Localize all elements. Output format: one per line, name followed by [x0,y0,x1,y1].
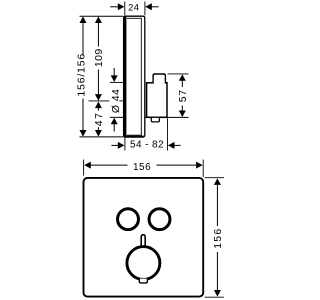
dimension 156 top extension lines [83,160,85,176]
dimension 57 up arrow [179,74,186,81]
dimension 156 right up arrow [214,178,221,185]
svg-text:54 - 82: 54 - 82 [130,140,164,151]
extension line bottom-left (plate bottom) [80,136,124,138]
right select button [149,209,170,230]
dimension 156/156 down arrow [80,130,87,137]
concealed valve body (iBox) [147,83,167,118]
dimension 156/156 up arrow [80,16,87,23]
svg-text:156: 156 [212,228,224,249]
extension line 57 top [168,73,189,75]
dimension 47 down arrow [95,130,102,137]
svg-text:57: 57 [177,89,189,102]
extension line valve center [89,100,110,102]
dimension 57 line [181,80,183,88]
dimension 156 right line [216,185,218,227]
dimension 156 top left arrow [84,162,91,169]
wall plate inner contour line [127,18,142,135]
dimension 156 top right arrow [196,162,203,169]
dimension 109 down arrow [95,94,102,101]
dimension 156 right down arrow [214,290,221,297]
dimension 24 right arrow [151,6,158,8]
left select button [118,209,139,230]
dimension 54-82 left arrow [111,144,118,146]
wall plate front face (thick line) [123,16,126,136]
dimension Ø44 top arrow [113,68,115,76]
dimension 54-82 extension lines [124,136,126,151]
dimension Ø44 bottom arrow [113,124,115,132]
dimension 57 down arrow [179,111,186,118]
dimension 156 right extension lines [205,177,224,179]
wall plate side profile outer [124,16,145,137]
wall plate bottom edge (thick) [124,136,144,138]
dimension 156/156 line [82,21,84,55]
svg-text:156/156: 156/156 [75,53,87,97]
dimension 24 extension lines [124,2,126,16]
dimension 54-82 right arrow [174,144,181,146]
dimension 24 left arrow [110,6,118,8]
svg-text:156: 156 [133,162,151,173]
extension line Ø44 top [110,81,124,83]
thermostat knob [127,247,160,280]
valve body top tab [153,74,165,84]
extension line bottom (under valve body, right part) [145,116,189,118]
svg-text:Ø 44: Ø 44 [110,89,122,113]
dimension 109 line [97,21,99,47]
extension line bottom (under valve body, left part) [110,116,124,118]
svg-text:24: 24 [128,2,139,13]
dimension 156 top line [91,164,128,166]
svg-text:109: 109 [93,48,105,67]
valve body bottom tab [151,118,159,122]
thermostat knob bottom tab [139,279,147,283]
extension line top-left (plate top) [80,15,124,17]
dimension 109 up arrow [95,16,102,23]
thermostat knob stem [141,235,145,247]
dimension 47 line [97,108,99,111]
svg-text:47: 47 [93,112,105,127]
front plate [84,178,204,297]
dimension 47 up arrow [95,102,102,109]
